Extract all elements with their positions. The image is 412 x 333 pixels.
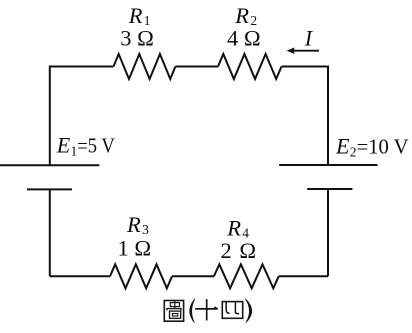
svg-text:3 Ω: 3 Ω xyxy=(120,26,154,51)
svg-text:R: R xyxy=(128,3,143,28)
wire E2 to bottom-right corner xyxy=(327,189,329,276)
wire bottom-right segment xyxy=(279,275,328,277)
svg-text:E: E xyxy=(56,133,71,158)
svg-text:R: R xyxy=(126,212,141,237)
caption glyph ten: right end serif xyxy=(214,307,218,309)
wire between R3 and R4 xyxy=(172,275,214,277)
wire bottom-left segment xyxy=(50,275,110,277)
svg-text:1 Ω: 1 Ω xyxy=(118,236,152,261)
resistor R3 xyxy=(110,264,172,288)
caption glyph tu: lower hui inner box xyxy=(172,314,177,317)
caption close parenthesis xyxy=(245,299,252,323)
wire top-right segment + right vertical xyxy=(282,67,329,166)
wire E1 to bottom-left corner xyxy=(49,189,51,276)
resistor R1 xyxy=(114,54,176,79)
svg-text:R: R xyxy=(234,3,249,28)
caption glyph: CJK tu (figure) outer box xyxy=(164,301,183,322)
current arrow head xyxy=(287,47,295,54)
svg-text:2 Ω: 2 Ω xyxy=(221,238,258,263)
svg-text:2: 2 xyxy=(350,144,357,159)
svg-text:=10 V: =10 V xyxy=(357,135,409,159)
caption glyph ten: vertical xyxy=(206,299,208,320)
battery E2 short plate xyxy=(307,188,352,190)
caption glyph: CJK four outer box xyxy=(222,302,242,319)
battery E2 long plate xyxy=(279,164,377,166)
battery E1 long plate xyxy=(0,164,99,166)
current arrow line xyxy=(293,50,319,52)
caption glyph tu: inner top small box xyxy=(170,303,179,307)
caption glyph tu: lower hui outer box xyxy=(170,311,181,318)
caption glyph tu: tiny neck stroke xyxy=(174,301,176,309)
caption open parenthesis xyxy=(190,299,195,323)
svg-text:I: I xyxy=(304,26,314,51)
svg-text:1: 1 xyxy=(71,144,78,159)
svg-text:R: R xyxy=(226,216,241,241)
caption glyph four: inner left stroke with rightward foot xyxy=(226,302,229,314)
wire between R1 and R2 xyxy=(175,66,218,68)
svg-text:=5 V: =5 V xyxy=(77,134,115,158)
caption glyph tu: middle horizontal bar xyxy=(166,309,181,311)
wire left vertical + top-left segment xyxy=(50,67,114,166)
resistor R4 xyxy=(214,264,279,288)
caption glyph four: inner right stroke with foot xyxy=(235,302,239,314)
svg-text:E: E xyxy=(335,134,350,159)
svg-text:4 Ω: 4 Ω xyxy=(227,26,261,51)
battery E1 short plate xyxy=(27,188,72,190)
resistor R2 xyxy=(218,54,282,79)
caption glyph: CJK ten (cross) horizontal xyxy=(195,308,217,310)
